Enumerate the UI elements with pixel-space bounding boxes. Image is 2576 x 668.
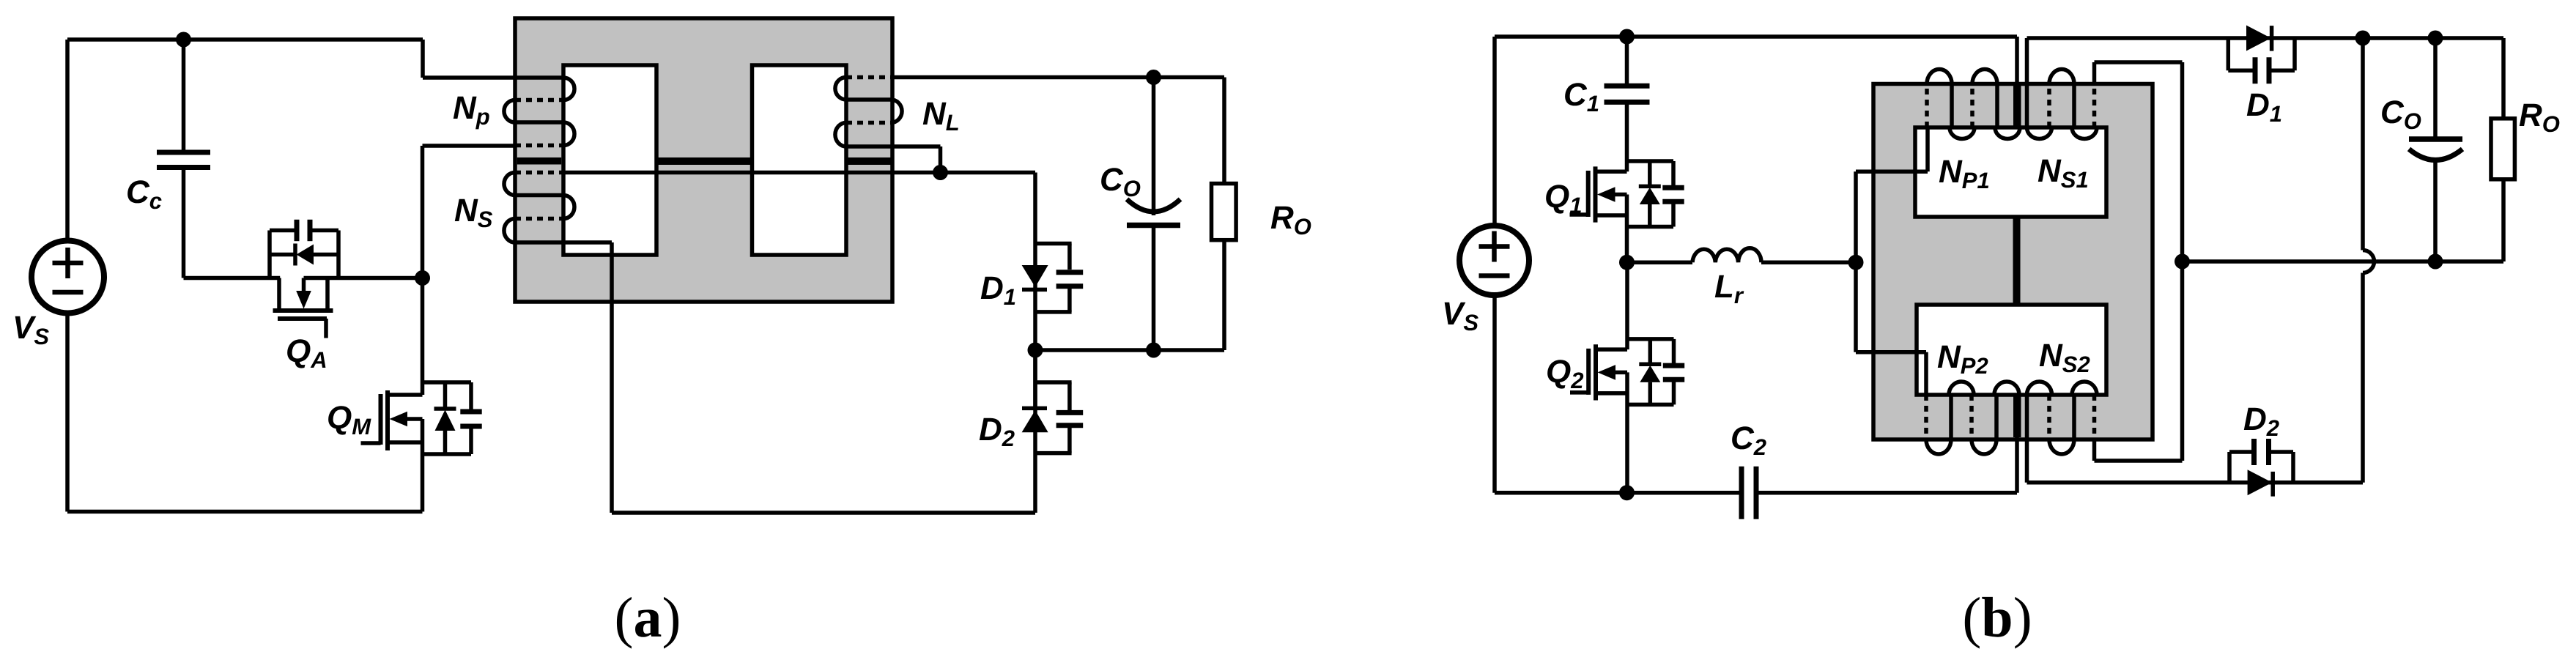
capacitor D2 parallel cap (a) (1056, 410, 1084, 415)
wire Co top lead (a) (1152, 78, 1156, 216)
winding NS arc 1 left (504, 173, 515, 196)
snubber bracket of D2 (a) (1035, 380, 1072, 385)
voltage source VS (a) (32, 241, 104, 313)
wire transformer center line (secondary top) to node (563, 171, 941, 175)
wire C1 bottom lead / Q1 drain (1625, 102, 1629, 171)
wire NS exit down through core (610, 242, 614, 513)
snubber bracket of D1 (b) (2227, 38, 2231, 70)
capacitor Co (a) straight plate (1127, 223, 1180, 229)
winding NP1 terminal jog (1925, 127, 1930, 171)
transistor Q2 (1570, 339, 1684, 405)
winding Np dashed 1 (515, 98, 563, 103)
wire top rail step down to Np top (421, 40, 425, 78)
winding NS1 loop 1 (2027, 127, 2052, 139)
wire left rail upper (Vs+ to top rail) (65, 40, 70, 242)
node center tap / output return (2175, 254, 2190, 270)
transistor QM (361, 382, 482, 454)
core gap bar bottom (b) (2013, 395, 2021, 437)
diode D1 (b) (2246, 26, 2271, 51)
wire Ro top lead (b) (2501, 38, 2506, 119)
wire Co bottom lead (b) (2433, 160, 2438, 261)
winding NS2 start column from D2 wire (2025, 395, 2029, 483)
winding Np arc 1 right (563, 78, 574, 100)
capacitor Co (b) curved plate (2409, 149, 2462, 160)
winding NP2 terminal jog (1924, 352, 1928, 395)
winding NS arc 2 right (563, 196, 574, 219)
wire QM source lead to bottom rail (421, 419, 425, 512)
wire bottom rail (a) (67, 510, 423, 514)
wire Ro top lead (a) (1222, 78, 1226, 184)
node crossover column top (b) (2355, 31, 2371, 46)
winding NS2 loop 1 (2027, 382, 2052, 395)
wire secondary bottom rail (a) (612, 511, 1035, 515)
wire mid node to Q2 drain (1625, 262, 1629, 349)
wire to NP1 terminal (1856, 169, 1928, 174)
wire left rail lower (Vs- down) (65, 313, 70, 512)
winding NP2 exit column to bottom rail (2015, 395, 2019, 493)
node Co top (b) (2428, 31, 2443, 46)
winding NS dashed 1 (center line tap) (515, 171, 563, 175)
wire output rail (a) (1035, 348, 1224, 352)
winding Np arc 3 right (563, 122, 574, 146)
wire output mid rail (b) (2183, 259, 2504, 264)
node half-bridge midpoint (b) (1619, 255, 1635, 270)
node QA/QM/Np junction (415, 270, 430, 286)
winding NP1 loop 1 (1925, 84, 1929, 128)
winding NS1 loop 2 (2072, 127, 2097, 139)
transformer core (b) gray box (1873, 84, 2153, 440)
wire NS2 exit to center-tap column (2095, 459, 2183, 463)
transistor Q1 (1570, 161, 1684, 227)
transformer left window (a) (563, 65, 656, 255)
svg-text:(a): (a) (615, 585, 681, 649)
capacitor Co (a) curved plate (1127, 199, 1180, 212)
winding NS dashed 2 (515, 217, 563, 221)
wire crossover column upper (2361, 38, 2365, 250)
winding NL exit crossing (solid) (846, 144, 941, 149)
winding NS2 loop 2 (2072, 382, 2097, 395)
winding NP1 exit column to top rail (2015, 37, 2019, 127)
winding NL arc 2 right (891, 100, 902, 123)
wire top rail (b) (1495, 34, 2017, 39)
wire Q2 source to bottom rail (1625, 372, 1629, 492)
transistor QA (270, 220, 338, 338)
capacitor D1 parallel cap (b) (2253, 57, 2258, 83)
wire hop over mid rail (2363, 250, 2375, 273)
winding Np arc 2 left (504, 100, 515, 123)
core gap bar center (b) (2013, 217, 2021, 305)
winding NS1 start column from top-right rail (2025, 38, 2029, 127)
node top rail / C1 (b) (1619, 29, 1635, 45)
svg-text:(b): (b) (1962, 585, 2032, 649)
transformer core (a) gray box (515, 18, 892, 302)
wire QA source segment to node (304, 276, 423, 281)
wire secondary top rail to D1 (b) (2027, 36, 2504, 40)
diode D2 (a) (1022, 410, 1048, 432)
wire output top rail (a) (891, 75, 1224, 80)
winding NS exit crossing (solid) (515, 240, 612, 245)
capacitor C2 (1739, 467, 1744, 519)
winding NP2 loop 2 (1969, 395, 1974, 439)
resistor Ro (a) (1212, 184, 1237, 240)
snubber bracket of D2 (b) (2227, 452, 2232, 483)
wire D2 anode down / diode D2 (a) (1033, 350, 1037, 410)
winding NL dashed 2 (846, 121, 891, 125)
wire Lr to primary node (1761, 260, 1856, 264)
wire Ro bottom lead (a) (1222, 240, 1226, 350)
winding NP2 loop 1 (1924, 395, 1928, 439)
core gap bar left leg (a) (517, 157, 561, 165)
winding NS crossing (solid) (515, 193, 563, 198)
capacitor Co (b) straight plate (2409, 136, 2462, 142)
wire Cc bottom lead to QA drain (182, 168, 186, 278)
snubber bracket of D1 (a) (1035, 242, 1072, 246)
wire mid node to Lr (1627, 260, 1693, 264)
node Co bottom (a) (1146, 343, 1161, 358)
wire node to D1 corner (941, 171, 1036, 175)
winding NS arc 3 left (504, 219, 515, 243)
wire Q1 source to mid node (1625, 195, 1629, 263)
wire QM drain lead (421, 278, 425, 396)
node bottom rail / Q2 source (b) (1619, 485, 1635, 500)
node Co top (a) (1146, 70, 1161, 85)
diode D2 (b) (2248, 470, 2273, 495)
winding NL arc 1 left (835, 78, 846, 100)
transformer lower box (b) (1917, 305, 2106, 395)
capacitor C1 (1605, 83, 1650, 89)
wire Vs top lead (b) (1492, 37, 1497, 226)
wire Co bottom lead (a) (1152, 226, 1156, 351)
core gap bar right leg (a) (846, 157, 891, 165)
voltage source VS (b) (1459, 226, 1529, 295)
winding NL crossing (solid) (846, 97, 891, 102)
wire Cc top lead (182, 40, 186, 152)
node secondary junction (a) (933, 165, 948, 180)
wire to NP2 terminal (1856, 350, 1926, 355)
transformer upper box (b) (1915, 127, 2106, 217)
wire Vs bottom lead (b) (1492, 294, 1497, 493)
capacitor D2 parallel cap (b) (2251, 439, 2257, 465)
winding Np crossing mid (solid) (515, 120, 563, 125)
wire C1 top lead (1625, 37, 1629, 86)
winding NP1 loop 2 (1970, 84, 1974, 128)
winding NS2 exit dashed (2092, 395, 2097, 439)
wire Co top lead (b) (2433, 38, 2438, 139)
wire Np bottom terminal (421, 146, 425, 278)
diode D1 (a) (1022, 265, 1048, 287)
winding Np crossing top (solid) (515, 75, 563, 80)
capacitor D1 parallel cap (a) (1056, 270, 1084, 275)
wire NS1 exit to center-tap column (2095, 60, 2183, 64)
node D1 cathode / output rail (a) (1028, 343, 1043, 358)
node Cc tap on top rail (176, 32, 191, 48)
transformer right window (a) (752, 65, 847, 255)
capacitor Cc (157, 150, 210, 155)
node Co bottom (b) (2428, 254, 2443, 270)
wire top rail from Vs to transformer step (67, 37, 423, 42)
wire D2 rail (b) (2027, 480, 2364, 485)
wire bottom rail right (b) (1756, 491, 2017, 495)
inductor Lr (1692, 248, 1761, 262)
wire crossover column lower (2361, 273, 2365, 483)
wire bottom rail left (b) (1495, 491, 1742, 495)
wire NL exit corner down to node (939, 146, 943, 173)
winding Np dashed 2 (515, 144, 563, 148)
winding NL top dashed (846, 75, 891, 80)
wire secondary center-tap column (2180, 62, 2185, 461)
wire Ro bottom lead (b) (2501, 179, 2506, 261)
core gap bar center leg (a) (656, 157, 752, 165)
node primary split (b) (1848, 255, 1864, 270)
winding NS1 exit dashed (2092, 84, 2097, 128)
winding NL arc 3 left (835, 123, 846, 147)
wire primary node vertical (1854, 171, 1858, 352)
resistor Ro (b) (2491, 119, 2514, 179)
core gap bar top (b) (2013, 86, 2021, 127)
